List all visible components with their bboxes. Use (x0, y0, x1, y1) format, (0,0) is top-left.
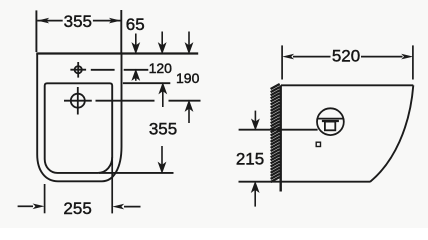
svg-text:355: 355 (64, 12, 92, 31)
inner bowl outline (45, 83, 113, 173)
svg-text:65: 65 (126, 15, 145, 34)
svg-text:120: 120 (149, 60, 173, 76)
120 extension line (123, 82, 170, 84)
small crosshair hole (70, 62, 86, 78)
svg-text:255: 255 (63, 199, 91, 218)
top edge (281, 84, 413, 86)
dim 120 up arrow / 355 vertical top arrow (159, 84, 166, 107)
dim 65 up arrow (132, 70, 139, 81)
dim 255: arrowheads (33, 204, 125, 210)
dim 520: extension lines (282, 45, 413, 79)
wall face line (280, 85, 282, 191)
dim 190 up arrow (186, 101, 193, 123)
line from small hole (65 ref), right segment (124, 69, 149, 71)
down arrows onto top reference line (132, 32, 192, 53)
dim 355 top: dimension line (37, 20, 121, 22)
svg-text:355: 355 (149, 120, 177, 139)
drain square (316, 142, 320, 146)
outer rim outline (37, 54, 121, 182)
line from small hole (65 ref), left segment (91, 69, 115, 71)
wall hatching (271, 84, 280, 182)
dim 520: arrowheads (282, 54, 413, 60)
front profile curve (370, 85, 413, 181)
line from large hole (190 ref), left segment (96, 100, 155, 102)
dim 355 vertical: bottom down arrow (159, 146, 166, 172)
large crosshair hole (64, 87, 92, 115)
line from large hole (190 ref), right segment (169, 100, 201, 102)
spray nozzle (317, 108, 344, 135)
dim 255: extension lines (18, 157, 141, 213)
dim 215: arrows (252, 111, 259, 207)
svg-text:520: 520 (332, 46, 360, 65)
dim 355 top: extension lines (35, 10, 37, 52)
svg-text:190: 190 (176, 70, 200, 86)
nozzle center line to wall (239, 129, 318, 131)
top reference line (rect top edge extended right) (36, 52, 198, 54)
bottom reference line (355 vertical) (99, 172, 174, 174)
dim 355 top: arrowheads (37, 18, 121, 24)
svg-text:215: 215 (236, 149, 264, 168)
bottom edge + left reference line (239, 181, 371, 183)
